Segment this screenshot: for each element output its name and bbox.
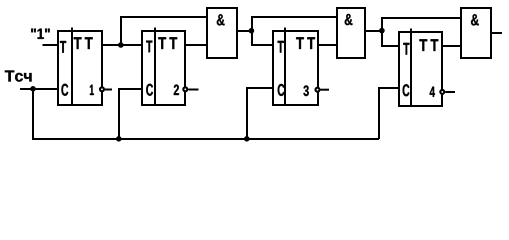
- label & of D3: [471, 14, 479, 25]
- label C of U3: [278, 84, 285, 96]
- label output digit 2: [174, 85, 179, 95]
- wire Q3 to D2 input: [318, 44, 337, 46]
- flip-flop U2 divider: [154, 28, 156, 106]
- junction dot Q1 branch: [118, 42, 124, 48]
- label output digit 4: [430, 87, 435, 97]
- wire bus riser to C input of U2: [119, 89, 142, 140]
- label C of U4: [403, 84, 410, 96]
- flip-flop U1 box: [58, 31, 102, 105]
- output stub U1: [105, 89, 112, 91]
- wire Q1 to T input of U2: [102, 44, 142, 46]
- AND gate D2 box: [337, 8, 365, 58]
- flip-flop U1 divider: [71, 28, 73, 106]
- label TT of U1: [74, 37, 93, 49]
- flip-flop U4 box: [399, 32, 442, 106]
- wire D1 branch down to T input of U3: [252, 31, 273, 45]
- wire Tcч clock to C input of U1: [20, 88, 58, 90]
- label const "1": [31, 29, 50, 39]
- junction dot clock to bus riser: [30, 86, 36, 92]
- output stub U4: [445, 91, 455, 93]
- junction dot D1 output: [249, 28, 255, 34]
- wire bus riser to C input of U3: [247, 88, 273, 140]
- wire clock riser down to bus: [32, 89, 34, 139]
- label output digit 3: [303, 85, 308, 96]
- wire D2 branch up to D3 input: [382, 18, 461, 31]
- junction dot bus to U3 riser: [244, 136, 250, 142]
- wire D1 output: [237, 30, 252, 32]
- label & of D1: [217, 14, 225, 25]
- AND gate D3 box: [461, 8, 491, 58]
- junction dot D2 output: [379, 28, 385, 34]
- output stub U2: [188, 89, 198, 91]
- label T of U3: [278, 41, 284, 53]
- wire D2 output: [365, 30, 382, 32]
- flip-flop U2 box: [142, 31, 185, 105]
- wire bus riser to C input of U4: [379, 88, 399, 139]
- wire bottom clock bus: [32, 138, 379, 140]
- label TT of U4: [419, 39, 438, 51]
- junction dot bus to U2 riser: [116, 136, 122, 142]
- inverted output bubble U2: [183, 87, 187, 91]
- wire Q1 branch up to D1 input: [121, 17, 207, 45]
- label & of D2: [345, 14, 353, 25]
- label output digit 1: [90, 85, 94, 95]
- label T of U2: [146, 41, 152, 53]
- flip-flop U4 divider: [410, 29, 412, 107]
- label TT of U3: [296, 37, 315, 49]
- wire const "1" to T input of U1: [43, 44, 59, 46]
- label Tcч: [5, 70, 32, 81]
- flip-flop U3 divider: [284, 28, 286, 106]
- output stub U3: [321, 89, 330, 91]
- wire Q2 to D1 input: [185, 44, 207, 46]
- wire D1 branch up to D2 input: [252, 17, 337, 31]
- wire Q4 to D3 input: [442, 45, 461, 47]
- flip-flop U3 box: [273, 31, 318, 105]
- label C of U1: [61, 84, 68, 96]
- wire D2 branch down to T input of U4: [382, 31, 399, 46]
- inverted output bubble U4: [440, 90, 444, 94]
- wire D3 output stub: [491, 32, 502, 34]
- label T of U1: [60, 41, 66, 53]
- inverted output bubble U1: [100, 87, 104, 91]
- AND gate D1 box: [207, 8, 237, 58]
- inverted output bubble U3: [316, 88, 320, 92]
- label TT of U2: [158, 37, 177, 49]
- label T of U4: [403, 43, 409, 55]
- label C of U2: [146, 84, 153, 96]
